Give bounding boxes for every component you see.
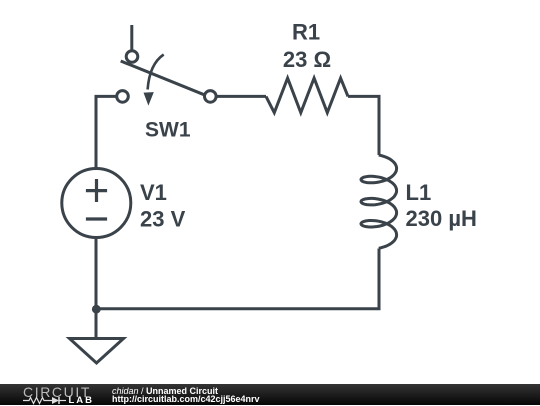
switch SW1 top terminal circle — [126, 51, 138, 63]
wire: resistor to top-right corner, down to inductor — [348, 96, 379, 155]
resistor R1 — [266, 78, 348, 113]
wire: V1 bottom to ground — [95, 238, 98, 339]
svg-text:230 µH: 230 µH — [406, 206, 477, 231]
credit line 2 — [112, 395, 260, 404]
CircuitLab logo: squiggle + diode + LAB — [23, 396, 98, 405]
credit line 1 — [112, 387, 218, 396]
wire: switch top stub — [130, 25, 133, 50]
svg-text:23 V: 23 V — [140, 206, 186, 231]
CircuitLab logo: CIRCUIT text — [23, 385, 91, 399]
switch SW1 toggle arrow — [148, 55, 164, 90]
switch SW1 left terminal circle — [117, 91, 129, 103]
wire: right terminal to resistor — [216, 95, 266, 98]
svg-text:SW1: SW1 — [145, 119, 191, 142]
svg-text:L1: L1 — [406, 180, 432, 205]
V1 minus sign — [86, 217, 107, 220]
switch SW1 right terminal circle — [205, 91, 217, 103]
voltage source V1 circle — [62, 169, 131, 238]
svg-text:23 Ω: 23 Ω — [283, 47, 331, 72]
inductor L1 coil — [361, 155, 397, 248]
wire: inductor to bottom-right corner, along bottom to junction — [96, 249, 379, 309]
node junction dot — [92, 305, 101, 314]
ground symbol — [70, 339, 124, 364]
footer bar — [0, 384, 540, 405]
switch SW1 blade — [121, 61, 205, 95]
V1 plus sign — [86, 189, 107, 192]
svg-text:R1: R1 — [292, 20, 320, 45]
wire: left terminal to left rail corner — [96, 96, 117, 168]
svg-text:V1: V1 — [140, 180, 167, 205]
